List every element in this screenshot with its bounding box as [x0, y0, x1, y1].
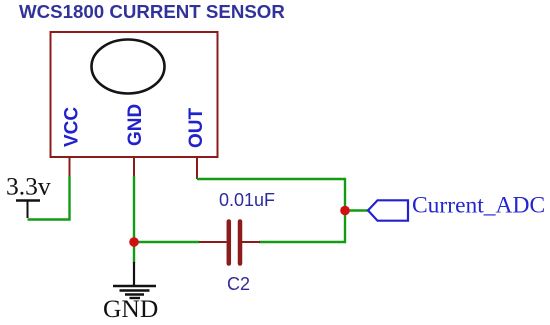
junction dot at GND/C2 [129, 237, 139, 247]
sensor body U1 [51, 32, 218, 157]
core aperture ellipse [92, 40, 165, 94]
svg-text:0.01uF: 0.01uF [219, 190, 275, 210]
pin OUT stub [196, 158, 198, 179]
capacitor C2 plates [227, 222, 232, 264]
wire OUT net [197, 179, 345, 242]
svg-text:WCS1800 CURRENT SENSOR: WCS1800 CURRENT SENSOR [19, 1, 285, 22]
wire flag stub [345, 209, 368, 211]
wire VCC net [28, 176, 70, 220]
wire GND to C2 [134, 241, 200, 243]
svg-text:GND: GND [125, 104, 146, 146]
svg-text:C2: C2 [227, 274, 250, 294]
svg-text:GND: GND [103, 294, 158, 323]
pin GND stub [133, 158, 135, 177]
svg-text:Current_ADC: Current_ADC [412, 193, 545, 219]
pin VCC stub [69, 158, 71, 177]
capacitor C2 right lead [242, 241, 260, 243]
wire GND vertical [133, 176, 135, 263]
ground symbol [113, 286, 156, 298]
capacitor C2 left lead [199, 241, 227, 243]
svg-text:VCC: VCC [62, 107, 83, 147]
power bar symbol [16, 199, 40, 202]
svg-text:OUT: OUT [186, 108, 207, 149]
junction dot at OUT/flag [340, 206, 350, 216]
net flag Current_ADC [368, 200, 408, 220]
svg-text:3.3v: 3.3v [6, 172, 51, 201]
ground lead [133, 262, 135, 285]
